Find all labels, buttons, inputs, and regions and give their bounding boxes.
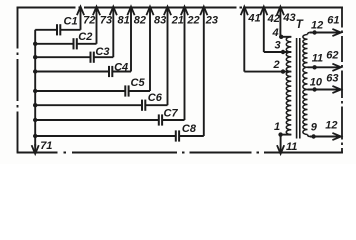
- svg-text:73: 73: [100, 15, 112, 27]
- arrow terminal 81 (up, through top border): [110, 7, 117, 16]
- junction dot on bus, branch C4: [33, 69, 37, 73]
- svg-text:C2: C2: [78, 31, 92, 43]
- junction dot on bus, branch C8: [33, 134, 37, 138]
- svg-text:10: 10: [310, 76, 323, 88]
- svg-text:3: 3: [275, 40, 281, 52]
- transformer T primary winding: [286, 37, 291, 135]
- svg-text:71: 71: [40, 140, 52, 152]
- svg-text:4: 4: [272, 27, 279, 39]
- capacitor C2: [73, 38, 75, 49]
- wire secondary tap 10 to terminal 63: [308, 89, 340, 91]
- svg-text:23: 23: [205, 15, 218, 27]
- junction dot 12: [312, 30, 316, 34]
- junction dot 11: [312, 65, 316, 69]
- capacitor C5: [124, 85, 126, 96]
- svg-text:C6: C6: [148, 92, 163, 104]
- junction dot 10: [312, 87, 316, 91]
- svg-text:72: 72: [83, 15, 95, 27]
- wire bus to C3: [35, 56, 90, 58]
- wire 41 to tap 2: [243, 8, 245, 72]
- wire bus to C2: [35, 43, 73, 45]
- wire bus to C4: [35, 71, 109, 73]
- wire C8 to riser: [179, 135, 204, 137]
- svg-text:T: T: [296, 19, 304, 31]
- riser wire to top terminal 83: [149, 8, 151, 91]
- svg-text:21: 21: [171, 15, 184, 27]
- riser wire to top terminal 21: [167, 8, 169, 105]
- riser wire to top terminal 82: [130, 8, 132, 72]
- arrow terminal 42 (up): [260, 7, 267, 16]
- svg-text:9: 9: [311, 122, 318, 134]
- svg-text:43: 43: [282, 12, 295, 24]
- arrow terminal 73 (up, through top border): [93, 7, 100, 16]
- arrow terminal 23 (up, through top border): [200, 7, 207, 16]
- wire secondary tap 11 to terminal 62: [308, 66, 340, 68]
- tap 2 dot: [281, 69, 285, 73]
- enclosure left border: [17, 7, 19, 153]
- wire C7 to riser: [162, 119, 184, 121]
- wire secondary tap 9 to terminal 12: [310, 136, 340, 138]
- arrow terminal 22 (up, through top border): [181, 7, 188, 16]
- junction dot on bus, branch C2: [33, 42, 37, 46]
- wire C2 to riser: [77, 43, 97, 45]
- capacitor C8: [175, 130, 177, 141]
- riser wire to top terminal 72: [80, 8, 82, 30]
- svg-text:63: 63: [326, 73, 338, 85]
- enclosure top border: [17, 7, 343, 9]
- arrow 71 (down, through bottom border): [34, 144, 36, 152]
- svg-text:81: 81: [118, 15, 130, 27]
- junction dot on bus, branch C5: [33, 89, 37, 93]
- wire C5 to riser: [129, 90, 150, 92]
- riser wire to top terminal 81: [112, 8, 114, 57]
- svg-text:2: 2: [273, 59, 280, 71]
- arrow terminal 83 (up, through top border): [146, 7, 153, 16]
- capacitor C7: [158, 114, 160, 125]
- transformer T secondary winding: [308, 33, 310, 35]
- arrow terminal 11 (down, through bottom border): [280, 135, 282, 153]
- svg-text:1: 1: [274, 121, 280, 133]
- enclosure bottom border: [17, 152, 343, 154]
- capacitor C4: [108, 66, 110, 77]
- arrow terminal 62 (right, through right border): [332, 64, 341, 71]
- svg-text:C5: C5: [131, 77, 146, 89]
- capacitor C3: [90, 52, 92, 63]
- svg-text:12: 12: [311, 19, 323, 31]
- riser wire to top terminal 22: [184, 8, 186, 120]
- wire C1 to riser: [60, 29, 80, 31]
- wire tap 1 to winding bottom: [281, 134, 292, 136]
- arrow terminal 41 (up): [241, 7, 248, 16]
- enclosure right border: [341, 7, 343, 154]
- junction dot on bus, branch C7: [33, 118, 37, 122]
- wire bus to C1: [35, 29, 57, 31]
- junction dot 9: [311, 134, 315, 138]
- svg-text:82: 82: [134, 15, 146, 27]
- capacitor C6: [141, 100, 143, 111]
- tap 3 dot: [281, 50, 285, 54]
- wire bus to C6: [35, 104, 142, 106]
- wire C6 to riser: [145, 104, 167, 106]
- wire bus to C8: [35, 135, 176, 137]
- riser wire to top terminal 73: [96, 8, 98, 44]
- arrow terminal 12 (right, through right border): [332, 133, 341, 140]
- capacitor C1: [56, 24, 58, 35]
- svg-text:22: 22: [186, 15, 199, 27]
- arrow terminal 61 (right, through right border): [332, 29, 341, 36]
- svg-text:62: 62: [326, 49, 338, 61]
- node 71 bus vertical wire: [34, 30, 36, 147]
- arrow terminal 82 (up, through top border): [127, 7, 134, 16]
- arrow terminal 21 (up, through top border): [164, 7, 171, 16]
- arrow terminal 43 (up): [277, 7, 284, 16]
- arrow terminal 63 (right, through right border): [332, 86, 341, 93]
- wire C3 to riser: [94, 56, 114, 58]
- svg-text:61: 61: [327, 15, 339, 27]
- riser wire to top terminal 23: [203, 8, 205, 136]
- wire C4 to riser: [112, 71, 131, 73]
- wire bus to C7: [35, 119, 159, 121]
- svg-text:11: 11: [312, 53, 323, 65]
- wire bus to C5: [35, 90, 125, 92]
- wire 43 to tap 4: [279, 8, 281, 37]
- svg-text:12: 12: [325, 120, 337, 132]
- junction dot on bus, branch C6: [33, 103, 37, 107]
- wire secondary tap 12 to terminal 61: [310, 32, 340, 34]
- svg-text:C8: C8: [182, 123, 197, 135]
- junction dot on bus, branch C3: [33, 55, 37, 59]
- svg-text:11: 11: [286, 141, 297, 153]
- tap 1 dot: [278, 132, 282, 136]
- svg-text:C7: C7: [164, 108, 179, 120]
- tap 4 dot: [279, 35, 283, 39]
- svg-text:83: 83: [154, 15, 166, 27]
- wire 42 to tap 3: [263, 8, 265, 52]
- arrow terminal 72 (up, through top border): [77, 7, 84, 16]
- svg-text:C1: C1: [64, 15, 78, 27]
- svg-text:41: 41: [247, 13, 260, 25]
- transformer core: [296, 38, 298, 139]
